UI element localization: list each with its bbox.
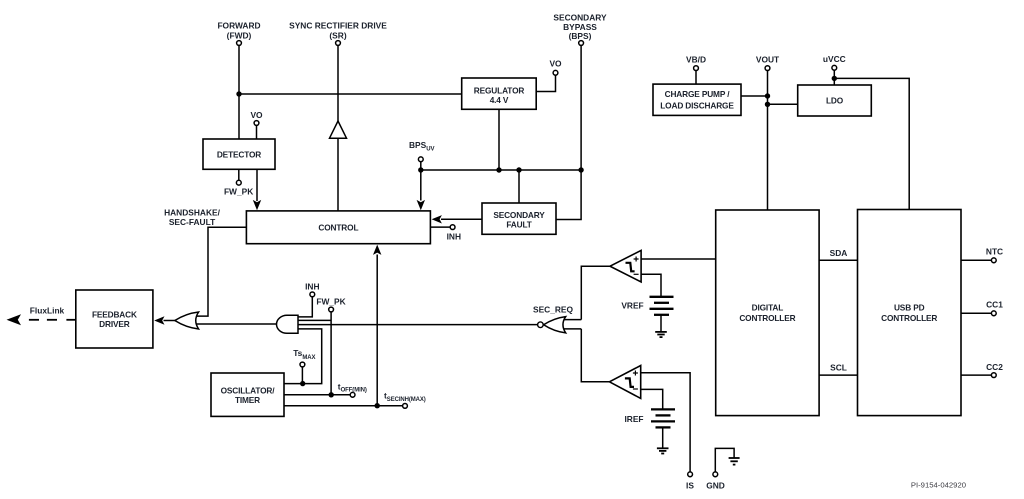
wire FWD to regulator bus [239,93,462,95]
node secondary fault junction [516,167,521,172]
ground (GND) [729,458,740,465]
wire bus to secondary fault [518,170,520,203]
comparator U2 IREF [609,366,640,399]
wire AND gate input from oscillator [284,329,322,384]
box LDO [798,85,872,116]
buffer SR driver [330,121,347,138]
svg-text:FAULT: FAULT [506,219,531,229]
terminal Ts_MAX [293,348,315,384]
terminal SECONDARY BYPASS (BPS) [553,13,607,46]
svg-text:tSECINH(MAX): tSECINH(MAX) [384,391,426,403]
wire VOUT to LDO [768,103,798,105]
svg-text:FEEDBACK: FEEDBACK [92,309,137,319]
svg-text:OSCILLATOR/: OSCILLATOR/ [221,386,276,396]
svg-text:CONTROLLER: CONTROLLER [739,313,795,323]
wire oscillator tOFF line [284,394,350,396]
svg-text:LOAD DISCHARGE: LOAD DISCHARGE [660,100,734,110]
ground (IREF) [657,448,669,453]
wire comparator IREF output to NOR gate [581,329,609,382]
svg-text:VB/D: VB/D [686,55,706,65]
wire IREF battery to ground [662,427,664,448]
node tOFF junction [329,392,334,397]
svg-text:DETECTOR: DETECTOR [217,149,261,159]
svg-text:VOUT: VOUT [756,55,780,65]
svg-text:FluxLink: FluxLink [30,306,65,316]
box SECONDARY FAULT [482,203,556,234]
box OSCILLATOR / TIMER [211,373,284,416]
wire secondary fault to control arrow [432,215,482,223]
svg-text:FW_PK: FW_PK [224,186,253,196]
node FWD junction [236,91,241,96]
wire VREF battery to ground [660,315,662,332]
terminal uVCC [823,54,846,85]
wire SDA [819,248,857,260]
svg-text:TsMAX: TsMAX [293,348,315,361]
svg-text:CHARGE PUMP /: CHARGE PUMP / [665,89,731,99]
terminal INH (control) [430,225,461,242]
gate AND [277,315,299,333]
node BPS_UV junction [418,167,423,172]
svg-text:SEC_REQ: SEC_REQ [533,305,574,315]
node LDO junction [765,102,770,107]
svg-text:REGULATOR: REGULATOR [474,85,525,95]
svg-text:DRIVER: DRIVER [99,319,130,329]
svg-text:VO: VO [549,58,562,68]
battery VREF reference [621,297,673,315]
wire comparator IREF plus input to IS [641,373,690,472]
box DIGITAL CONTROLLER [716,210,819,416]
svg-text:INH: INH [447,231,461,241]
wire GND hook [715,448,734,472]
svg-text:CONTROLLER: CONTROLLER [881,313,937,323]
wire detector to control arrow [253,169,261,210]
node Ts junction [300,381,305,386]
ground (VREF) [655,332,667,337]
node uVCC junction [832,76,837,81]
label HANDSHAKE / SEC-FAULT [164,208,221,227]
svg-text:CC2: CC2 [986,362,1003,372]
wire VOUT vertical [767,71,769,211]
svg-text:PI-9154-042920: PI-9154-042920 [911,481,966,490]
svg-text:SEC-FAULT: SEC-FAULT [169,217,216,227]
svg-text:LDO: LDO [826,95,844,105]
svg-text:IREF: IREF [624,414,643,424]
terminal INH (AND gate) [298,282,320,317]
box DETECTOR [203,139,275,169]
terminal FW_PK (detector) [224,169,253,196]
terminal CC2 [961,362,1003,377]
wire horizontal bus [421,169,581,171]
svg-text:(SR): (SR) [329,30,346,40]
svg-text:tOFF(MIN): tOFF(MIN) [338,381,367,393]
svg-text:BPSUV: BPSUV [409,140,434,153]
terminal VB/D [686,55,706,85]
wire FluxLink dashed [7,314,76,325]
svg-text:CC1: CC1 [986,300,1003,310]
wire NOR bottom input [562,328,581,330]
svg-text:VO: VO [250,110,263,120]
box USB PD CONTROLLER [858,210,962,416]
svg-text:4.4 V: 4.4 V [490,95,509,105]
box CHARGE PUMP / LOAD DISCHARGE [653,84,741,115]
gate NOR SEC_REQ [533,305,574,333]
svg-text:GND: GND [706,480,725,490]
wire VO into detector [256,125,258,139]
svg-text:(FWD): (FWD) [227,30,252,40]
svg-text:(BPS): (BPS) [569,31,592,41]
terminal VOUT [756,55,780,71]
svg-text:SYNC RECTIFIER DRIVE: SYNC RECTIFIER DRIVE [289,21,387,31]
svg-text:TIMER: TIMER [235,395,260,405]
wire OR output arrow [154,316,175,324]
terminal VO (detector) [250,110,263,125]
svg-text:CONTROL: CONTROL [318,223,358,233]
terminal FW_PK (AND gate) [298,296,346,395]
wire regulator to bus [498,109,500,170]
svg-text:VREF: VREF [621,301,643,311]
terminal NTC [961,246,1003,262]
wire SR vertical [337,45,339,121]
terminal SYNC RECTIFIER DRIVE (SR) [289,21,387,46]
wire buffer to control [337,138,339,211]
svg-text:INH: INH [305,282,319,292]
terminal CC1 [961,300,1003,316]
svg-text:IS: IS [686,480,694,490]
wire BPS_UV arrow to control [417,170,425,210]
svg-text:DIGITAL: DIGITAL [752,303,784,313]
svg-text:NTC: NTC [986,246,1003,256]
comparator U1 VREF [610,250,641,282]
terminal VO (regulator) [536,58,562,91]
svg-text:USB PD: USB PD [894,303,925,313]
node tSECINH junction [375,403,380,408]
wire comparator VREF minus input to reference [641,274,661,297]
wire handshake from control to OR gate [194,227,246,316]
wire FWD vertical [238,45,240,139]
terminal GND [706,472,725,490]
terminal IS [686,472,694,490]
wire SEC_REQ long line [298,324,538,326]
terminal BPS_UV [409,140,434,170]
wire comparator IREF minus input to reference [641,389,663,409]
box REGULATOR 4.4 V [462,78,537,109]
wire oscillator tSECINH line [284,405,402,407]
wire BPS vertical to secondary fault [556,45,581,219]
svg-text:SDA: SDA [830,248,848,258]
node BPS junction [578,167,583,172]
terminal tSECINH(MAX) [384,391,426,409]
wire uVCC to USB PD controller [834,78,909,209]
wire control feedback arrow [373,245,381,406]
wire charge pump to VOUT [741,95,768,97]
wire AND output to OR gate [194,323,277,325]
battery IREF reference [624,409,675,427]
wire SCL [819,362,857,375]
node charge pump junction [765,93,770,98]
svg-text:SCL: SCL [830,362,847,372]
svg-text:FORWARD: FORWARD [217,21,260,31]
node regulator junction [496,167,501,172]
wire comparator VREF output to NOR gate [581,266,610,319]
svg-text:FW_PK: FW_PK [316,296,345,306]
svg-text:uVCC: uVCC [823,54,846,64]
terminal FORWARD (FWD) [217,21,260,46]
wire comparator VREF plus input to digital controller [641,258,716,260]
box FEEDBACK DRIVER [76,290,153,348]
terminal tOFF(MIN) [338,381,367,397]
box CONTROL [246,211,430,244]
wire NOR top input [562,319,581,321]
gate OR [175,312,199,329]
